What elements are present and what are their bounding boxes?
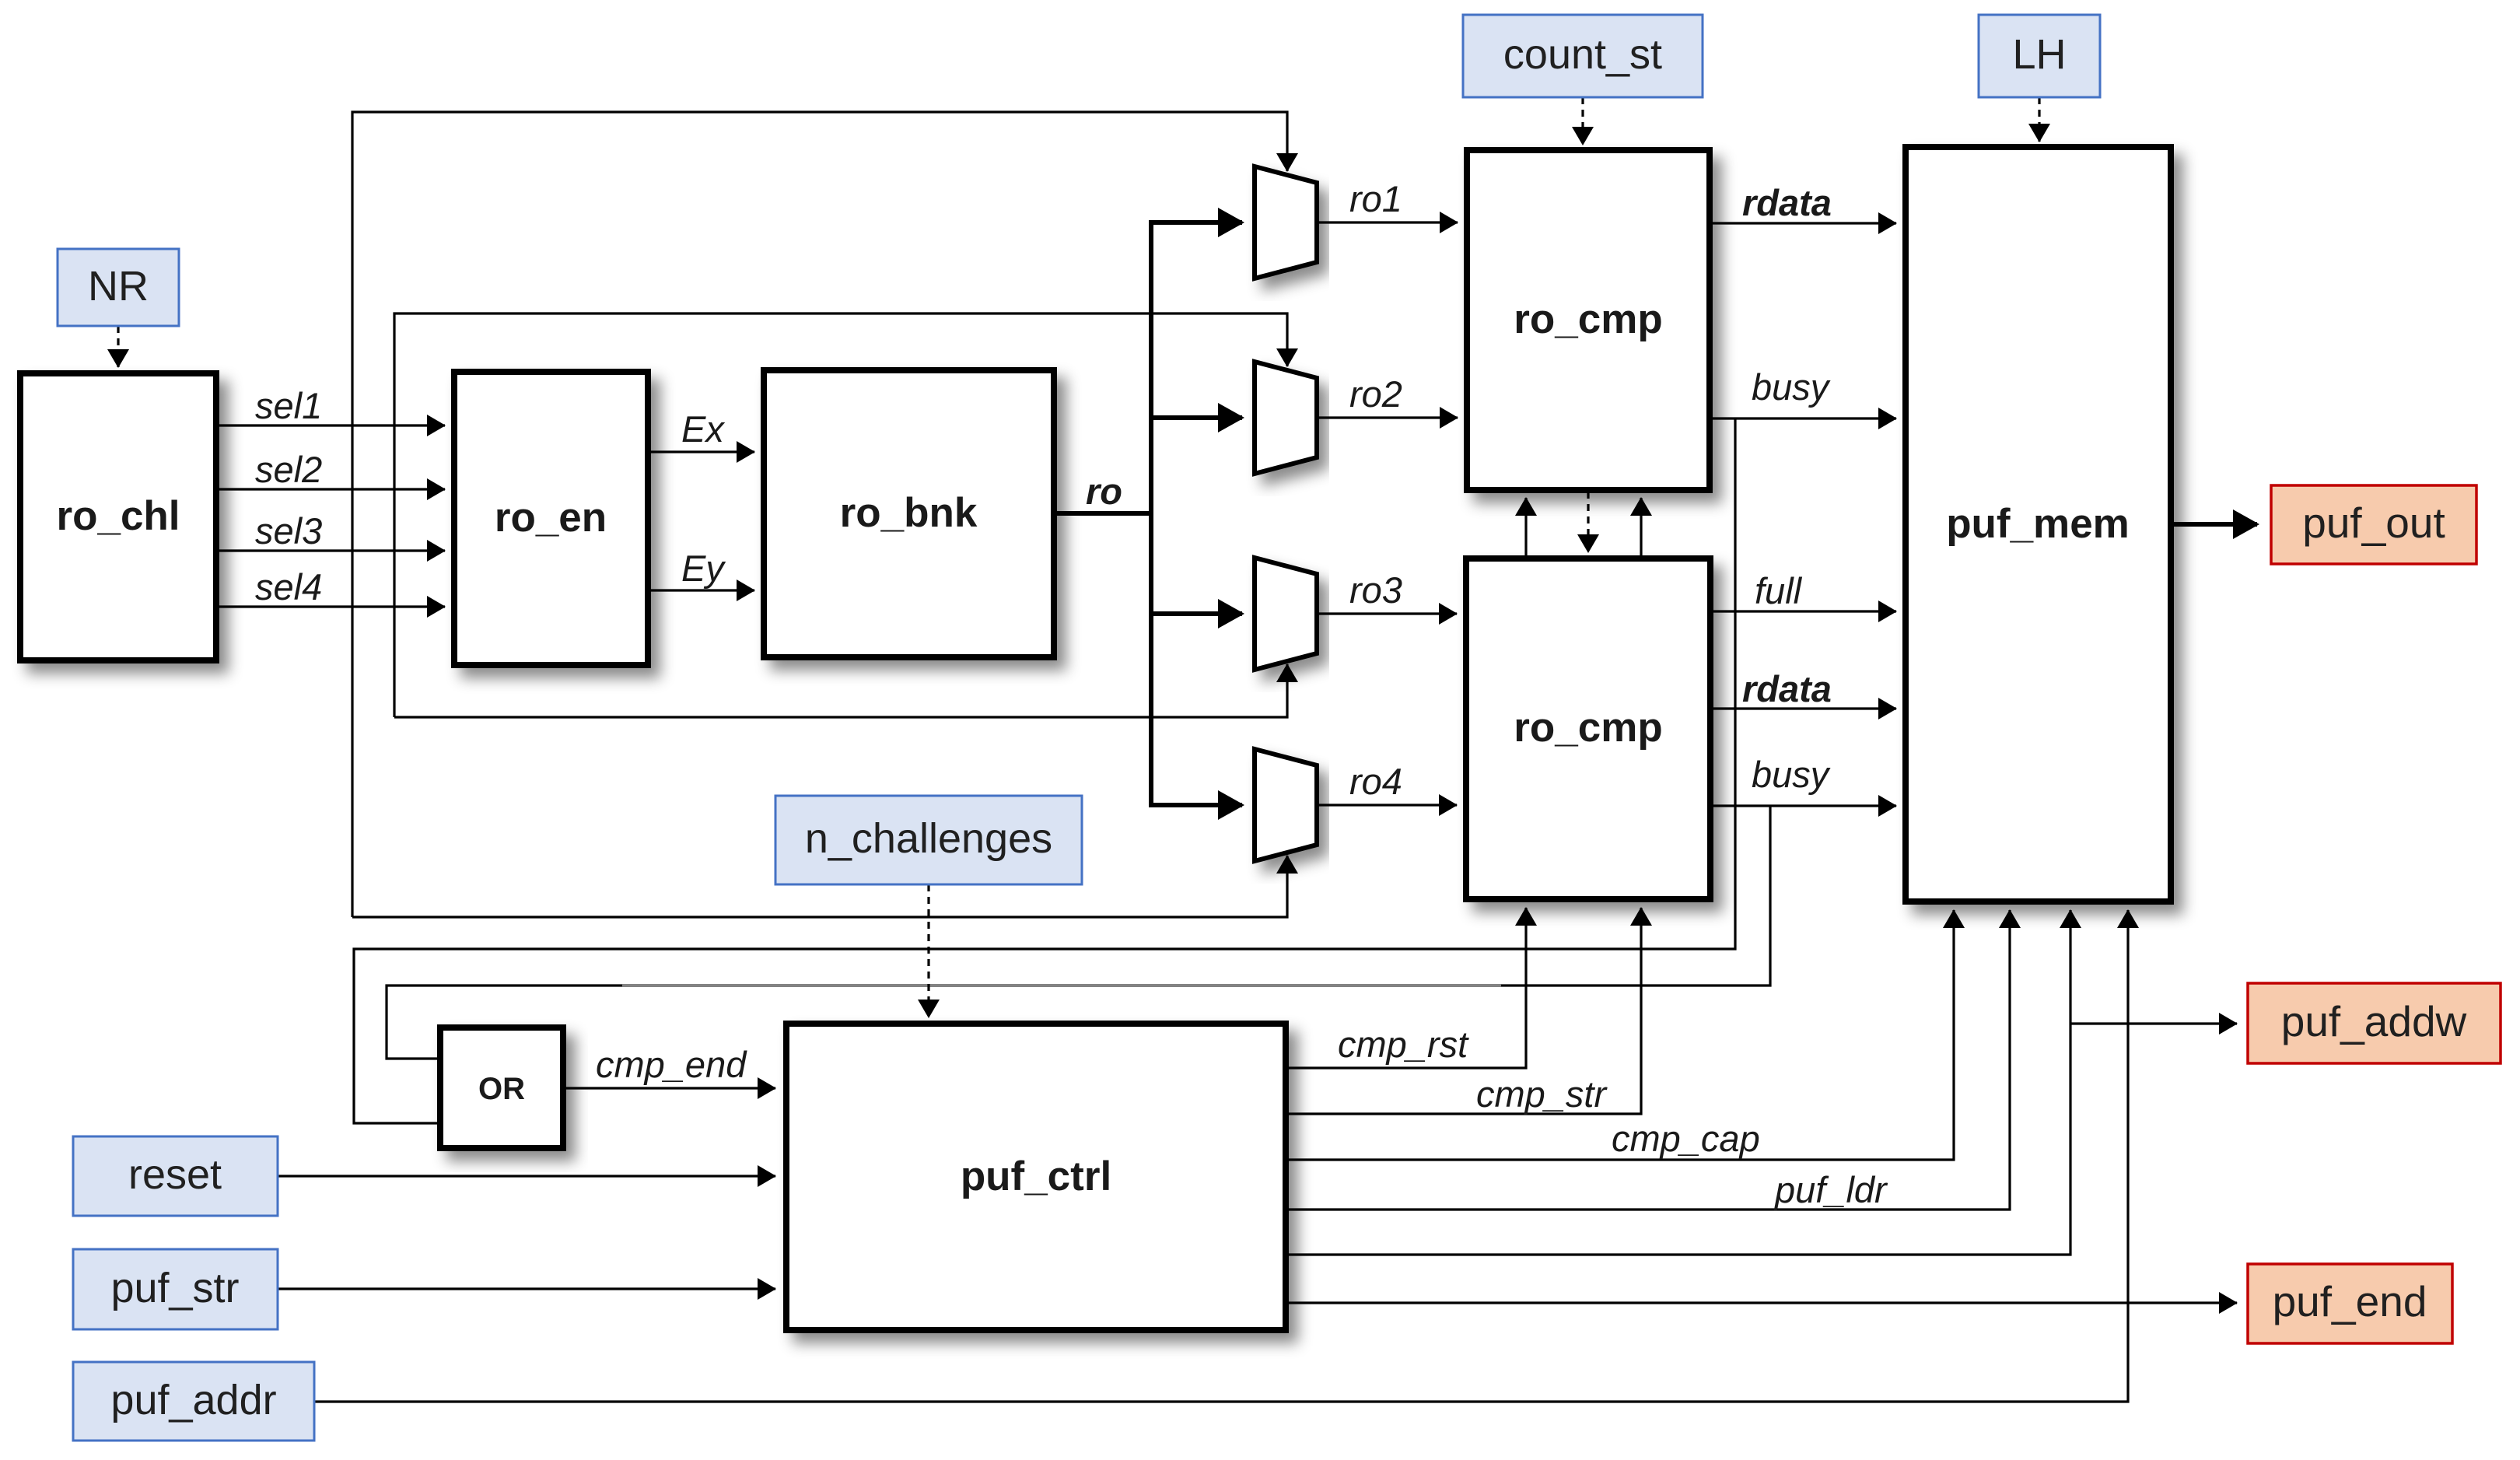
wire ro3	[1317, 612, 1457, 614]
svg-text:puf_end: puf_end	[2273, 1277, 2427, 1325]
svg-text:ro_cmp: ro_cmp	[1514, 296, 1662, 342]
svg-text:ro_chl: ro_chl	[56, 493, 180, 539]
svg-text:sel1: sel1	[255, 385, 322, 426]
wire mux3 select: run y922 up into mux3	[394, 664, 1287, 717]
block ro_cmp upper	[1467, 150, 1710, 490]
wire puf_end	[1286, 1301, 2237, 1304]
wire mux4 data stub	[1149, 803, 1242, 807]
mux M4	[1255, 749, 1317, 861]
svg-text:busy: busy	[1752, 754, 1831, 795]
input NR	[58, 249, 179, 326]
wire mux3 data stub	[1149, 611, 1242, 616]
input puf_str	[73, 1249, 278, 1329]
svg-text:cmp_end: cmp_end	[596, 1044, 747, 1085]
wire puf_ldr	[1286, 910, 2010, 1210]
wire sel3	[216, 549, 445, 551]
wire puf_str	[278, 1287, 775, 1290]
wire inter-comparator up arrow left	[1524, 498, 1527, 557]
output puf_addw	[2248, 983, 2501, 1063]
wire busy (lower) with return to OR	[387, 806, 1896, 1059]
wire mux1 select: vertical x453 and top run y144	[352, 112, 1287, 917]
output puf_out	[2271, 485, 2476, 564]
wire count_st dashed	[1581, 97, 1584, 145]
svg-text:rdata: rdata	[1742, 668, 1832, 709]
block ro_cmp lower	[1466, 558, 1710, 899]
wire sel2	[216, 488, 445, 490]
svg-text:n_challenges: n_challenges	[805, 815, 1052, 862]
svg-text:count_st: count_st	[1503, 31, 1662, 78]
wire puf_addr	[314, 910, 2128, 1402]
mux M2	[1255, 362, 1317, 474]
wire mux1 data stub	[1149, 220, 1242, 225]
svg-text:cmp_cap: cmp_cap	[1612, 1118, 1760, 1159]
svg-text:ro_en: ro_en	[495, 495, 607, 541]
wire ro bus	[1054, 220, 1151, 807]
svg-text:Ey: Ey	[681, 548, 726, 589]
svg-text:ro1: ro1	[1349, 178, 1402, 219]
output puf_end	[2248, 1264, 2452, 1343]
wire rdata (lower)	[1710, 707, 1896, 709]
svg-text:sel2: sel2	[255, 449, 322, 490]
svg-text:NR: NR	[88, 263, 149, 310]
svg-text:puf_mem: puf_mem	[1946, 501, 2130, 547]
wire Ey	[648, 589, 754, 591]
svg-text:puf_addr: puf_addr	[110, 1377, 276, 1423]
svg-text:puf_ldr: puf_ldr	[1773, 1169, 1888, 1210]
wire inter-comparator up arrow right	[1640, 498, 1642, 557]
svg-text:full: full	[1755, 570, 1803, 611]
svg-text:ro4: ro4	[1349, 761, 1402, 802]
wire cmp_str	[1286, 908, 1641, 1114]
input n_challenges	[775, 796, 1082, 884]
svg-text:rdata: rdata	[1742, 182, 1832, 223]
svg-text:reset: reset	[128, 1151, 222, 1198]
wire cmp_rst	[1286, 908, 1526, 1068]
svg-text:puf_addw: puf_addw	[2281, 997, 2467, 1045]
svg-text:sel4: sel4	[255, 566, 322, 607]
mux M3	[1255, 558, 1317, 670]
wire ro1	[1317, 221, 1458, 223]
wire cmp_cap	[1286, 910, 1954, 1160]
wire NR dashed	[117, 326, 119, 367]
wire mux2 data stub	[1149, 415, 1242, 420]
svg-text:ro_cmp: ro_cmp	[1514, 705, 1662, 751]
svg-text:OR: OR	[478, 1072, 525, 1106]
block puf_mem	[1906, 147, 2171, 902]
svg-text:puf_out: puf_out	[2302, 499, 2445, 547]
svg-text:busy: busy	[1752, 366, 1831, 408]
wire busy (upper) with return to OR	[354, 418, 1896, 1123]
wire LH dashed	[2038, 97, 2040, 142]
input LH	[1979, 15, 2100, 97]
wire rdata (upper)	[1710, 222, 1896, 224]
wire to puf_mem and puf_addw tap	[1286, 910, 2237, 1255]
svg-text:puf_str: puf_str	[110, 1265, 239, 1311]
wire mux4 select: run y1179 up into mux4	[352, 856, 1287, 917]
wire inter-comparator dashed down	[1587, 492, 1589, 552]
wire ro2	[1317, 416, 1458, 418]
mux M1	[1255, 166, 1317, 278]
input count_st	[1463, 15, 1703, 97]
wire cmp_end	[563, 1087, 775, 1089]
wire n_challenges dashed	[927, 884, 929, 1017]
block ro_en	[454, 372, 648, 665]
wire puf_out	[2171, 522, 2257, 527]
block ro_bnk	[764, 370, 1054, 657]
svg-text:cmp_rst: cmp_rst	[1338, 1024, 1469, 1065]
wire ro4	[1317, 804, 1457, 806]
wire Ex	[648, 450, 754, 453]
gate OR	[440, 1028, 563, 1148]
svg-text:LH: LH	[2012, 31, 2066, 78]
svg-text:Ex: Ex	[681, 408, 725, 450]
block puf_ctrl	[786, 1024, 1286, 1330]
input reset	[73, 1136, 278, 1216]
svg-text:ro: ro	[1086, 471, 1122, 512]
input puf_addr	[73, 1362, 314, 1441]
svg-text:ro2: ro2	[1349, 373, 1402, 415]
svg-text:cmp_str: cmp_str	[1476, 1073, 1608, 1115]
wire sel1	[216, 424, 445, 426]
wire full	[1710, 610, 1896, 612]
wire reset	[278, 1175, 775, 1177]
wire sel4	[216, 605, 445, 607]
wire mux2 select: vertical x507 and run y403	[394, 313, 1287, 717]
block ro_chl	[20, 373, 216, 660]
svg-text:ro3: ro3	[1349, 569, 1402, 611]
svg-text:ro_bnk: ro_bnk	[840, 490, 978, 536]
svg-text:sel3: sel3	[255, 510, 322, 551]
svg-text:puf_ctrl: puf_ctrl	[961, 1154, 1111, 1199]
